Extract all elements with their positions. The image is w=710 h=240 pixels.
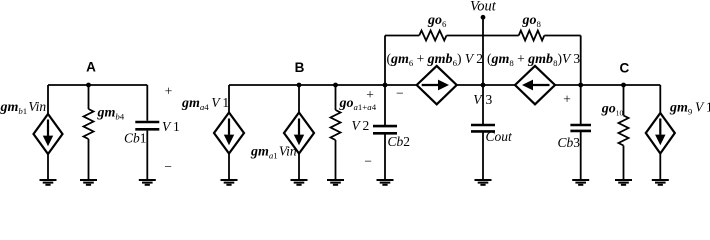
svg-text:C: C: [620, 61, 630, 76]
ground: [139, 180, 156, 185]
svg-text:(gm8 + gmb8)V 3: (gm8 + gmb8)V 3: [487, 51, 580, 68]
node A: [86, 83, 91, 88]
capacitor Cb3: [570, 125, 591, 131]
svg-text:+: +: [366, 87, 374, 102]
wire: rail between sources: [457, 84, 515, 86]
svg-text:Cb2: Cb2: [388, 134, 411, 149]
svg-text:+: +: [165, 84, 173, 99]
resistor go_8: [519, 31, 545, 41]
wire: Vout column: [482, 17, 484, 125]
resistor go_10: [619, 116, 629, 146]
wire: drop to go_a1+a4 resistor: [335, 85, 337, 110]
svg-text:Cb1: Cb1: [124, 131, 147, 146]
wire: drop to gm_a4 source: [228, 85, 230, 113]
svg-text:3: 3: [486, 92, 493, 107]
resistor gm_b4: [84, 109, 94, 139]
node V3: [481, 83, 486, 88]
wire: go_a1+a4 resistor to ground: [335, 140, 337, 180]
wire: top rail segment left: [385, 35, 419, 37]
ground: [291, 180, 308, 185]
wire: go_10 to ground: [623, 146, 625, 181]
current source gm_9 V1: [646, 113, 675, 154]
svg-text:V 2: V 2: [352, 118, 370, 133]
svg-text:A: A: [86, 60, 96, 75]
ground: [40, 180, 57, 185]
wire: drop to Cb1: [146, 85, 148, 121]
svg-text:Cb3: Cb3: [558, 135, 581, 150]
node C: [621, 83, 626, 88]
wire: riser to top rail right: [580, 36, 582, 86]
wire: Cout to ground: [482, 131, 484, 180]
ground: [652, 180, 669, 185]
ground: [615, 180, 632, 185]
current source gm_a4 V1: [214, 113, 244, 154]
svg-text:+: +: [563, 92, 571, 107]
ground: [327, 180, 344, 185]
node: Cb2 riser junction: [383, 83, 388, 88]
current source gm_b1 Vin: [34, 114, 63, 154]
wire: node A rail: [48, 84, 147, 86]
wire: drop to gm_9 source: [659, 85, 661, 113]
svg-text:V 1: V 1: [162, 119, 180, 134]
capacitor Cout: [471, 125, 495, 131]
wire: gm_a4 source to ground: [228, 154, 230, 181]
svg-text:−: −: [164, 159, 172, 174]
wire: drop to gm_b1 source: [47, 85, 49, 114]
ground: [221, 180, 238, 185]
wire: Cb1 to ground: [146, 131, 148, 180]
current source gm_a1 Vin: [284, 113, 314, 154]
wire: top rail segment right: [544, 35, 580, 37]
node Vout: [481, 15, 486, 20]
wire: rail to node C: [555, 84, 660, 86]
wire: node B rail: [229, 84, 417, 86]
wire: drop to gm_b4 resistor: [88, 85, 90, 109]
svg-text:Vout: Vout: [470, 0, 497, 15]
wire: drop to gm_a1 source: [298, 85, 300, 113]
wire: gm_b1 source to ground: [47, 154, 49, 180]
wire: gm_a1 source to ground: [298, 154, 300, 181]
ground: [377, 180, 394, 185]
resistor go_a1+a4: [331, 110, 341, 140]
wire: drop to Cb2: [384, 85, 386, 125]
wire: top rail segment middle: [447, 35, 519, 37]
node B: [297, 83, 302, 88]
wire: gm_9 source to ground: [659, 154, 661, 181]
svg-text:B: B: [295, 60, 305, 75]
wire: Cb2 to ground: [384, 134, 386, 180]
capacitor Cb1: [135, 122, 159, 129]
ground: [572, 180, 589, 185]
controlled source (gm8+gmb8)V3: [515, 66, 555, 104]
wire: gm_b4 resistor to ground: [88, 139, 90, 180]
capacitor Cb2: [373, 126, 397, 133]
node: go_a1+a4 junction: [333, 83, 338, 88]
ground: [80, 180, 97, 185]
wire: drop to go_10: [623, 85, 625, 116]
ground: [475, 180, 492, 185]
svg-text:−: −: [396, 86, 404, 101]
svg-text:(gm6 + gmb6) V 2: (gm6 + gmb6) V 2: [387, 51, 483, 68]
svg-text:−: −: [364, 154, 372, 169]
node: Cb3 riser junction: [578, 83, 583, 88]
resistor go_6: [419, 31, 446, 41]
wire: riser to top rail left: [384, 36, 386, 86]
svg-text:Cout: Cout: [486, 129, 514, 144]
wire: drop to Cb3: [580, 85, 582, 124]
wire: Cb3 to ground: [580, 132, 582, 180]
controlled source (gm6+gmb6)V2: [417, 66, 457, 104]
